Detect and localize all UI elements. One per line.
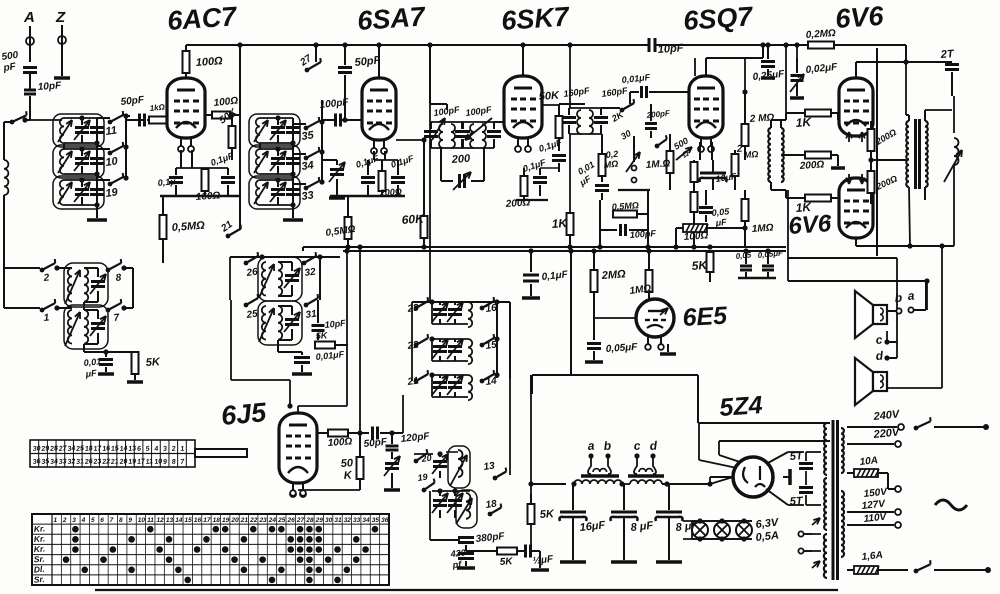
svg-text:1MΩ: 1MΩ: [751, 222, 774, 235]
svg-text:32: 32: [304, 266, 317, 279]
svg-text:32: 32: [67, 458, 76, 466]
svg-text:A: A: [23, 9, 35, 26]
svg-text:5: 5: [91, 517, 95, 524]
svg-text:0,5MΩ: 0,5MΩ: [171, 220, 205, 234]
svg-text:2: 2: [62, 517, 67, 524]
svg-text:5K: 5K: [691, 258, 709, 273]
svg-text:4: 4: [153, 446, 159, 453]
svg-text:Kr.: Kr.: [33, 544, 45, 555]
svg-text:6SK7: 6SK7: [500, 1, 571, 36]
svg-text:6SQ7: 6SQ7: [682, 1, 755, 36]
svg-text:21: 21: [240, 517, 249, 524]
svg-text:200: 200: [450, 153, 471, 166]
svg-text:100Ω: 100Ω: [195, 55, 223, 69]
svg-text:c: c: [875, 333, 883, 347]
svg-text:26: 26: [84, 458, 94, 466]
svg-text:12: 12: [156, 517, 164, 524]
svg-text:10: 10: [154, 458, 163, 466]
svg-text:35: 35: [41, 458, 50, 466]
svg-text:6E5: 6E5: [682, 302, 729, 332]
svg-text:Sr.: Sr.: [33, 574, 45, 585]
svg-text:18: 18: [213, 517, 221, 524]
svg-text:50K: 50K: [538, 90, 560, 103]
svg-text:6J5: 6J5: [220, 397, 268, 431]
svg-text:31: 31: [76, 458, 85, 466]
svg-text:25: 25: [277, 517, 286, 524]
svg-text:29: 29: [40, 445, 50, 453]
svg-text:30: 30: [32, 445, 41, 453]
svg-text:23: 23: [92, 458, 102, 466]
svg-text:20: 20: [230, 517, 239, 524]
svg-text:1K: 1K: [795, 200, 813, 215]
svg-text:Sr.: Sr.: [33, 554, 45, 565]
svg-text:11: 11: [147, 517, 154, 524]
svg-text:26: 26: [287, 517, 296, 524]
svg-text:18: 18: [85, 445, 94, 453]
svg-text:60K: 60K: [401, 211, 425, 227]
svg-text:a: a: [587, 439, 595, 453]
svg-text:16: 16: [102, 445, 111, 453]
svg-text:14: 14: [175, 517, 183, 524]
svg-text:8: 8: [171, 459, 176, 466]
svg-text:27: 27: [296, 517, 305, 524]
svg-text:19: 19: [417, 472, 428, 483]
svg-text:5K: 5K: [499, 556, 513, 568]
svg-text:31: 31: [334, 517, 342, 524]
svg-text:7: 7: [110, 517, 114, 524]
svg-text:25: 25: [245, 308, 259, 321]
svg-text:13: 13: [483, 460, 496, 473]
svg-text:33: 33: [353, 517, 361, 524]
svg-text:21: 21: [110, 458, 120, 466]
svg-text:b: b: [894, 291, 902, 305]
svg-text:0,05μF: 0,05μF: [605, 342, 638, 355]
svg-text:26: 26: [245, 266, 259, 279]
svg-text:1K: 1K: [795, 115, 813, 130]
svg-text:8: 8: [119, 517, 123, 524]
svg-text:2MΩ: 2MΩ: [600, 268, 626, 282]
svg-text:100Ω: 100Ω: [327, 436, 352, 449]
svg-text:0,5MΩ: 0,5MΩ: [611, 200, 639, 212]
svg-text:20: 20: [118, 458, 128, 466]
svg-text:11: 11: [145, 458, 153, 466]
svg-text:4: 4: [81, 517, 86, 524]
svg-text:1M.Ω: 1M.Ω: [645, 158, 670, 171]
svg-text:2T: 2T: [939, 48, 955, 61]
svg-text:5T: 5T: [789, 495, 804, 508]
svg-text:24: 24: [268, 517, 277, 524]
svg-text:0,05: 0,05: [711, 206, 730, 218]
svg-text:15: 15: [185, 517, 193, 524]
svg-text:19: 19: [128, 458, 137, 466]
svg-text:a: a: [907, 289, 915, 303]
svg-text:Z: Z: [55, 9, 66, 26]
svg-text:16: 16: [194, 517, 202, 524]
svg-text:6: 6: [100, 517, 104, 524]
svg-text:17: 17: [203, 517, 211, 524]
svg-text:8 μF: 8 μF: [630, 520, 654, 534]
svg-text:10A: 10A: [859, 455, 878, 468]
svg-text:33: 33: [301, 189, 315, 203]
svg-text:b: b: [603, 439, 611, 453]
svg-text:0,01: 0,01: [83, 356, 101, 368]
svg-text:30: 30: [325, 517, 333, 524]
svg-text:3: 3: [72, 517, 76, 524]
svg-text:½μF: ½μF: [532, 554, 554, 567]
svg-text:5K: 5K: [539, 508, 555, 521]
svg-text:Kr.: Kr.: [33, 533, 45, 544]
svg-text:9: 9: [128, 517, 132, 524]
svg-text:2: 2: [735, 144, 743, 155]
svg-text:28: 28: [305, 517, 314, 524]
svg-text:MΩ: MΩ: [603, 159, 618, 170]
svg-text:6SA7: 6SA7: [356, 1, 427, 36]
svg-text:31: 31: [305, 308, 318, 321]
svg-text:36: 36: [32, 458, 41, 466]
svg-text:32: 32: [344, 517, 352, 524]
svg-text:15: 15: [111, 445, 120, 453]
svg-text:33: 33: [59, 458, 68, 466]
svg-text:23: 23: [258, 517, 267, 524]
svg-text:34: 34: [67, 445, 76, 453]
svg-text:c: c: [633, 439, 641, 453]
svg-text:100Ω: 100Ω: [683, 230, 708, 243]
svg-text:200Ω: 200Ω: [798, 159, 824, 172]
svg-text:22: 22: [249, 517, 258, 524]
svg-text:1,6A: 1,6A: [861, 550, 883, 563]
svg-text:μF: μF: [84, 368, 97, 379]
svg-text:0,5A: 0,5A: [755, 530, 779, 544]
svg-text:Kr.: Kr.: [33, 523, 45, 534]
svg-text:pF: pF: [2, 61, 18, 74]
svg-text:13: 13: [166, 517, 174, 524]
svg-text:0,2MΩ: 0,2MΩ: [805, 28, 836, 41]
svg-text:10pF: 10pF: [37, 80, 62, 93]
svg-text:25: 25: [75, 445, 85, 453]
svg-text:20: 20: [420, 453, 432, 464]
svg-text:34: 34: [50, 458, 59, 466]
svg-text:5: 5: [145, 446, 150, 453]
svg-text:0,05: 0,05: [735, 250, 752, 261]
svg-text:1kΩ: 1kΩ: [149, 102, 166, 113]
svg-text:1: 1: [180, 446, 185, 453]
svg-text:6V6: 6V6: [834, 1, 885, 34]
svg-text:6: 6: [137, 446, 142, 453]
svg-text:0,1μ: 0,1μ: [157, 176, 176, 188]
svg-text:50: 50: [340, 457, 354, 470]
svg-text:MΩ: MΩ: [743, 149, 758, 160]
svg-text:14: 14: [119, 445, 128, 453]
svg-text:18: 18: [485, 498, 498, 511]
svg-text:10: 10: [138, 517, 146, 524]
svg-text:2: 2: [825, 214, 831, 224]
svg-text:34: 34: [301, 159, 315, 173]
svg-text:6AC7: 6AC7: [166, 1, 239, 36]
svg-text:μF: μF: [714, 217, 727, 228]
svg-text:5K: 5K: [145, 356, 161, 369]
svg-text:22: 22: [101, 458, 111, 466]
svg-text:13: 13: [128, 445, 137, 453]
svg-text:1: 1: [54, 517, 58, 524]
svg-text:2: 2: [170, 446, 176, 453]
svg-text:11: 11: [105, 124, 118, 137]
svg-text:35: 35: [372, 517, 380, 524]
svg-text:1K: 1K: [551, 216, 569, 231]
svg-text:420: 420: [449, 547, 466, 559]
svg-text:Dl.: Dl.: [33, 564, 45, 575]
svg-text:29: 29: [315, 517, 324, 524]
svg-text:5Z4: 5Z4: [718, 391, 763, 422]
svg-text:34: 34: [362, 517, 370, 524]
svg-text:5T: 5T: [789, 450, 804, 463]
svg-text:36: 36: [381, 517, 389, 524]
svg-text:28: 28: [49, 445, 59, 453]
svg-text:19: 19: [222, 517, 230, 524]
